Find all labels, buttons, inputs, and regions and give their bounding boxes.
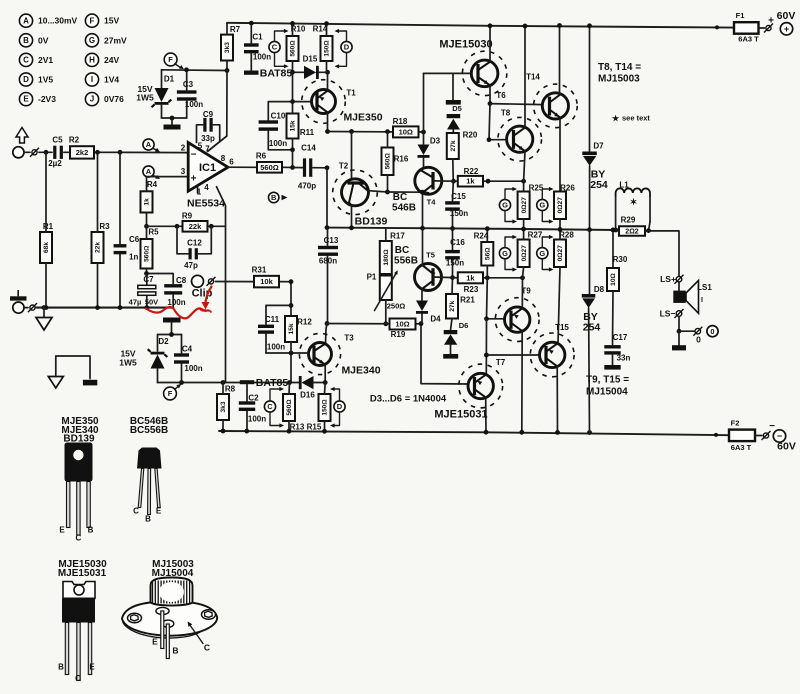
svg-text:1n: 1n <box>129 253 138 262</box>
node D testpoint upper <box>341 41 352 52</box>
svg-text:MJE15031: MJE15031 <box>58 568 107 579</box>
svg-text:D7: D7 <box>593 142 604 151</box>
svg-text:0Ω27: 0Ω27 <box>521 245 528 262</box>
node rail R10 <box>290 21 295 26</box>
svg-text:R26: R26 <box>560 184 575 193</box>
node rail R25-R28 <box>521 227 526 232</box>
transistor T9 <box>495 298 539 342</box>
svg-text:C: C <box>133 507 139 516</box>
svg-text:1W5: 1W5 <box>136 93 154 103</box>
node A testpoint lower <box>143 166 154 177</box>
svg-text:-2V3: -2V3 <box>38 94 56 104</box>
wire output rail right segment <box>645 231 679 276</box>
resistor R17 <box>380 241 392 274</box>
resistor R6 <box>257 162 282 173</box>
svg-text:C: C <box>204 643 210 653</box>
ground input triangle <box>36 318 52 331</box>
fuse F1 <box>734 22 759 34</box>
wire T5 base <box>434 276 453 279</box>
wire R9 line <box>147 225 183 227</box>
transistor T6 MJE15030 <box>462 51 506 95</box>
node legend B = 0V <box>19 34 32 47</box>
wire R5-C8 link <box>147 274 174 284</box>
svg-text:C: C <box>76 534 82 543</box>
wire R8 leads <box>222 383 224 395</box>
node G testpoint R26 <box>537 199 548 210</box>
svg-text:0Ω27: 0Ω27 <box>521 197 528 214</box>
svg-text:★: ★ <box>612 114 620 123</box>
svg-text:A: A <box>23 16 29 25</box>
svg-text:C17: C17 <box>613 333 628 342</box>
svg-text:F1: F1 <box>736 11 745 20</box>
svg-text:F2: F2 <box>731 419 740 428</box>
op-amp IC1 NE5534 <box>188 143 228 192</box>
svg-text:MJE340: MJE340 <box>341 365 380 377</box>
svg-text:C6: C6 <box>129 235 140 244</box>
svg-text:100n: 100n <box>185 100 203 109</box>
svg-text:−: − <box>769 421 775 432</box>
svg-text:R22: R22 <box>464 167 479 176</box>
svg-text:LS1: LS1 <box>697 283 712 292</box>
svg-text:R25: R25 <box>529 184 544 193</box>
resistor R5 <box>141 239 153 269</box>
svg-text:15k: 15k <box>288 323 295 334</box>
wire T7 emitter column <box>485 319 487 375</box>
resistor R21 <box>446 294 458 319</box>
ground bar C17 <box>604 365 620 370</box>
package TO-126 legs <box>67 482 70 528</box>
resistor R11 <box>287 114 299 139</box>
svg-text:A: A <box>146 140 152 149</box>
svg-text:R30: R30 <box>613 255 628 264</box>
svg-text:33n: 33n <box>617 354 631 363</box>
svg-text:47p: 47p <box>184 261 198 270</box>
resistor R25 <box>518 192 530 220</box>
transistor T4 BC546B <box>415 167 442 194</box>
node R18 line junctions <box>325 129 330 134</box>
ground bar D2 block <box>163 318 181 323</box>
resistor R20 <box>447 133 459 159</box>
node legend D = 1V5 <box>19 73 32 86</box>
node legend G = 27mV <box>85 34 98 47</box>
wire T14 collector <box>559 26 561 95</box>
svg-text:560Ω: 560Ω <box>144 245 151 262</box>
wire pin6 output line <box>228 166 257 168</box>
wire R30 top <box>612 230 614 268</box>
wire F2 to -60V terminal <box>755 435 762 437</box>
svg-text:56Ω: 56Ω <box>485 247 492 260</box>
svg-text:100n: 100n <box>184 364 202 373</box>
svg-text:R28: R28 <box>559 231 574 240</box>
chassis link wire <box>56 356 90 379</box>
svg-text:C5: C5 <box>52 136 63 145</box>
wire input to connector <box>24 151 30 153</box>
node bottom rail junctions left <box>221 429 226 434</box>
wire C12 left lead <box>177 226 188 254</box>
wire T8 emitter <box>524 151 525 181</box>
node rail F2 junction <box>714 433 718 437</box>
node rail mid D7 <box>587 227 592 232</box>
node T9 base junction <box>484 316 489 321</box>
node legend A = 10...30mV <box>19 14 32 27</box>
wire R11 to output line <box>292 150 294 168</box>
wire -60V bottom rail <box>219 431 729 435</box>
svg-text:BC: BC <box>393 192 407 203</box>
capacitor C14 <box>303 158 306 176</box>
svg-text:D15: D15 <box>303 55 318 64</box>
resistor R15 <box>319 394 331 421</box>
svg-text:22k: 22k <box>95 242 102 253</box>
wire R14 leads <box>326 24 328 36</box>
svg-text:E: E <box>152 637 158 647</box>
capacitor C11 <box>258 325 274 328</box>
capacitor C9 <box>203 118 206 132</box>
wire T2 base lead <box>351 132 353 180</box>
svg-text:MJ15004: MJ15004 <box>586 387 628 398</box>
node R22 junctions <box>486 179 491 184</box>
svg-text:C3: C3 <box>183 80 194 89</box>
svg-text:T5: T5 <box>426 251 435 260</box>
svg-text:10Ω: 10Ω <box>399 127 413 136</box>
node BAT85 junctions <box>290 70 295 75</box>
wire D1 block top (+15V node) <box>162 69 228 72</box>
resistor R9 <box>183 221 208 232</box>
svg-text:R9: R9 <box>182 212 193 221</box>
svg-text:C13: C13 <box>324 236 339 245</box>
svg-text:1V5: 1V5 <box>38 75 53 85</box>
wire R30 bottom <box>612 291 615 345</box>
node output rail left end <box>325 225 330 230</box>
node rail R24 <box>485 226 490 231</box>
package TO-3 can <box>122 602 217 636</box>
svg-text:B: B <box>88 526 94 535</box>
wire T9 emitter <box>521 278 523 308</box>
wire R3 leads <box>97 152 99 232</box>
wire C4 leads <box>181 335 183 354</box>
wire T15 base line <box>486 354 539 356</box>
svg-text:D3...D6 = 1N4004: D3...D6 = 1N4004 <box>370 394 447 405</box>
svg-text:R4: R4 <box>147 180 158 189</box>
svg-text:T7: T7 <box>496 358 506 367</box>
node clip terminal <box>192 275 204 287</box>
node T3 base junction <box>289 351 294 356</box>
connector -60V <box>763 433 768 438</box>
node rail R14 <box>324 21 329 26</box>
wire T6e to T8 base <box>489 104 507 140</box>
wire R24 column upper <box>486 229 488 242</box>
svg-text:D4: D4 <box>430 315 441 324</box>
node C testpoint lower <box>264 401 275 412</box>
wire C14col down <box>326 168 328 228</box>
svg-text:C: C <box>267 402 273 411</box>
svg-text:T8: T8 <box>501 109 511 118</box>
svg-text:C9: C9 <box>203 110 214 119</box>
node bottom rail junctions <box>484 430 489 435</box>
wire R26 bottom <box>559 219 561 229</box>
diode D7 BY254 <box>582 152 597 156</box>
input arrow symbol <box>16 128 28 144</box>
node D4 junction <box>419 321 424 326</box>
node legend H = 24V <box>85 53 98 66</box>
node legend E = -2V3 <box>19 93 32 106</box>
svg-text:BC: BC <box>395 245 409 256</box>
node gnd input terminal <box>13 302 24 313</box>
svg-text:LS−: LS− <box>660 309 676 319</box>
wire pin3 line <box>147 176 189 178</box>
diode D4 <box>416 301 428 312</box>
node bias bottom junction <box>450 275 455 280</box>
ground bar C1 <box>244 71 259 75</box>
svg-text:254: 254 <box>590 179 608 191</box>
wire C11 top link <box>266 305 291 324</box>
wire R18 line <box>328 131 394 133</box>
wire R24 bottom <box>486 266 488 278</box>
svg-text:B: B <box>23 36 29 45</box>
svg-text:R21: R21 <box>460 296 475 305</box>
svg-text:68k: 68k <box>43 242 50 253</box>
potentiometer P1 <box>380 276 392 301</box>
resistor R12 <box>285 316 297 342</box>
capacitor C17 <box>604 345 620 348</box>
node A testpoint upper <box>143 139 154 150</box>
transistor T2 BD139 <box>333 170 378 215</box>
wire D7 bottom <box>589 166 591 230</box>
capacitor C1 <box>244 43 259 46</box>
wire BAT85 upper line <box>293 71 305 73</box>
wire D8 bottom <box>588 308 591 433</box>
svg-text:T9, T15 =: T9, T15 = <box>586 375 629 386</box>
svg-text:R18: R18 <box>393 117 408 126</box>
wire C13 leads <box>327 228 329 246</box>
svg-text:R11: R11 <box>300 128 315 137</box>
svg-text:27k: 27k <box>449 300 456 311</box>
transistor T8 <box>498 117 542 161</box>
svg-text:R13: R13 <box>290 423 305 432</box>
svg-text:R29: R29 <box>621 216 636 225</box>
wire T1 emitter <box>327 72 329 90</box>
svg-text:D3: D3 <box>430 137 441 146</box>
svg-text:10Ω: 10Ω <box>610 272 617 285</box>
svg-text:24V: 24V <box>104 55 119 65</box>
wire R15 leads <box>324 383 327 395</box>
wire R22 line <box>452 180 458 182</box>
svg-text:0V: 0V <box>38 35 49 45</box>
connector clip <box>208 279 213 284</box>
wire T2 collector <box>368 191 387 192</box>
resistor R4 <box>141 191 153 212</box>
wire C6 leads <box>119 152 121 244</box>
capacitor C5 <box>53 146 56 159</box>
resistor R10 <box>287 36 299 61</box>
wire T1 collector <box>327 113 329 132</box>
wire D5-R20 lead <box>452 130 454 134</box>
svg-text:100n: 100n <box>269 139 287 148</box>
node D testpoint lower <box>334 401 345 412</box>
resistor R16 <box>382 148 394 176</box>
wire C12 right lead <box>198 226 211 254</box>
wire R25 leads <box>523 181 525 191</box>
ground shield bar input <box>10 296 27 300</box>
wire R16 leads <box>387 132 389 148</box>
svg-text:C12: C12 <box>187 239 202 248</box>
svg-text:F: F <box>90 16 95 25</box>
svg-text:6A3 T: 6A3 T <box>731 443 752 452</box>
node C1 rail junction <box>249 21 254 26</box>
node G testpoint R27 <box>499 248 510 259</box>
node BAT85 lower junctions <box>287 380 292 385</box>
wire gnd drop <box>43 308 45 317</box>
svg-text:MJE15031: MJE15031 <box>434 409 487 421</box>
wire C10 bottom link <box>268 131 292 150</box>
svg-text:10...30mV: 10...30mV <box>38 16 78 26</box>
resistor R26 <box>554 192 566 220</box>
wire +60V top rail <box>227 23 734 28</box>
package TO-220 body <box>62 598 95 622</box>
svg-text:✶: ✶ <box>630 197 638 207</box>
svg-text:+: + <box>768 16 774 27</box>
svg-text:G: G <box>502 249 508 258</box>
svg-text:560Ω: 560Ω <box>385 152 392 169</box>
svg-text:G: G <box>539 249 545 258</box>
svg-text:MJE350: MJE350 <box>343 112 382 124</box>
resistor R2 <box>70 146 94 158</box>
node B testpoint <box>269 192 279 202</box>
wire R20 bottom <box>452 159 455 181</box>
node F testpoint <box>164 53 177 66</box>
svg-text:D: D <box>337 402 343 411</box>
wire IC1 pin4 supply <box>217 187 226 383</box>
wire T6 emitter <box>489 86 491 104</box>
node D2 top junction <box>169 332 174 337</box>
wire R21 top <box>451 278 454 294</box>
transistor T7 MJE15031 <box>459 364 503 408</box>
svg-text:560Ω: 560Ω <box>290 40 297 57</box>
svg-text:BD139: BD139 <box>355 216 388 228</box>
ground bar speaker <box>672 345 686 350</box>
svg-text:4: 4 <box>204 183 209 192</box>
svg-text:C2: C2 <box>248 394 259 403</box>
resistor R14 <box>321 36 333 61</box>
svg-text:8: 8 <box>221 154 226 163</box>
svg-text:0V76: 0V76 <box>104 94 124 104</box>
node R9 junctions <box>175 224 180 229</box>
wire C9 right lead <box>213 125 220 141</box>
svg-text:T8, T14 =: T8, T14 = <box>598 62 641 73</box>
svg-text:47µ: 47µ <box>129 298 142 307</box>
svg-text:2: 2 <box>181 144 186 153</box>
connector LS- <box>676 311 682 317</box>
wire C3 leads <box>186 70 188 90</box>
ground chassis bar <box>83 380 97 386</box>
svg-text:150Ω: 150Ω <box>322 399 329 416</box>
svg-text:I: I <box>91 75 93 84</box>
node C11 junction <box>289 303 294 308</box>
svg-text:180Ω: 180Ω <box>383 249 390 266</box>
connector input <box>32 150 37 155</box>
wire R10 leads <box>292 23 294 36</box>
capacitor C10 <box>259 120 278 123</box>
diode D15 BAT85 <box>304 66 316 79</box>
node legend C = 2V1 <box>19 53 32 66</box>
svg-text:470p: 470p <box>298 182 316 191</box>
svg-text:27k: 27k <box>450 140 457 151</box>
node rail C15 junction <box>450 226 455 231</box>
svg-text:E: E <box>23 95 29 104</box>
svg-text:BC556B: BC556B <box>130 425 168 436</box>
wire R31-R12 column <box>290 282 292 316</box>
resistor R28 <box>554 240 566 268</box>
wire T8 collector <box>524 26 526 127</box>
wire R4 leads <box>146 177 148 192</box>
svg-text:250Ω: 250Ω <box>387 302 406 311</box>
svg-text:L1: L1 <box>619 181 629 190</box>
node rail T14 <box>557 23 562 28</box>
wire T5 emitter <box>422 228 424 265</box>
resistor R7 <box>221 35 233 61</box>
wire to 0 connector <box>679 330 694 332</box>
svg-text:C7: C7 <box>143 275 154 284</box>
wire R13 leads <box>288 383 291 395</box>
svg-text:D16: D16 <box>300 391 315 400</box>
svg-text:MJ15003: MJ15003 <box>598 74 640 85</box>
svg-text:G: G <box>89 36 95 45</box>
node rail T6 <box>488 23 493 28</box>
svg-text:R23: R23 <box>464 285 479 294</box>
wire C8 bottom <box>172 295 174 308</box>
svg-text:C: C <box>272 43 278 52</box>
node rail R30 <box>611 228 616 233</box>
diode D5 <box>447 114 461 118</box>
svg-text:3k3: 3k3 <box>224 42 231 53</box>
svg-text:27mV: 27mV <box>104 35 127 45</box>
connector +60V <box>766 25 771 30</box>
svg-text:BAT85: BAT85 <box>256 377 289 389</box>
wire C17 bottom <box>612 355 614 365</box>
node C13 bottom junction <box>325 321 330 326</box>
wire C1 leads <box>250 23 252 43</box>
node T6 emitter junction <box>488 101 493 106</box>
svg-text:2Ω2: 2Ω2 <box>625 229 639 236</box>
wire D6 bottom lead <box>450 345 452 354</box>
wire R5 leads <box>146 226 148 239</box>
svg-text:1W5: 1W5 <box>119 358 137 368</box>
wire T4 emitter <box>422 193 424 229</box>
wire T4 base <box>434 180 454 182</box>
svg-text:100n: 100n <box>248 415 266 424</box>
resistor R29 <box>619 226 645 236</box>
resistor R30 <box>607 268 619 291</box>
svg-text:3k3: 3k3 <box>220 401 227 412</box>
resistor R27 <box>518 240 530 268</box>
wire C9 left lead <box>197 125 203 143</box>
svg-text:D2: D2 <box>158 337 169 346</box>
svg-text:2µ2: 2µ2 <box>48 159 62 168</box>
zener D2 <box>151 355 165 369</box>
svg-text:MJE15030: MJE15030 <box>439 39 492 51</box>
node P1 bottom junction <box>383 321 388 326</box>
svg-text:0Ω27: 0Ω27 <box>557 197 564 214</box>
svg-text:6A3 T: 6A3 T <box>738 35 759 44</box>
connector gnd input <box>30 305 35 310</box>
capacitor C15 <box>445 201 460 204</box>
diode D16 BAT85 <box>302 376 314 389</box>
svg-text:C4: C4 <box>182 345 193 354</box>
node T15 base junction <box>484 353 489 358</box>
svg-text:R15: R15 <box>307 423 322 432</box>
svg-text:1V4: 1V4 <box>104 75 119 85</box>
wire T6 base line <box>423 73 425 132</box>
svg-text:T2: T2 <box>339 162 349 171</box>
